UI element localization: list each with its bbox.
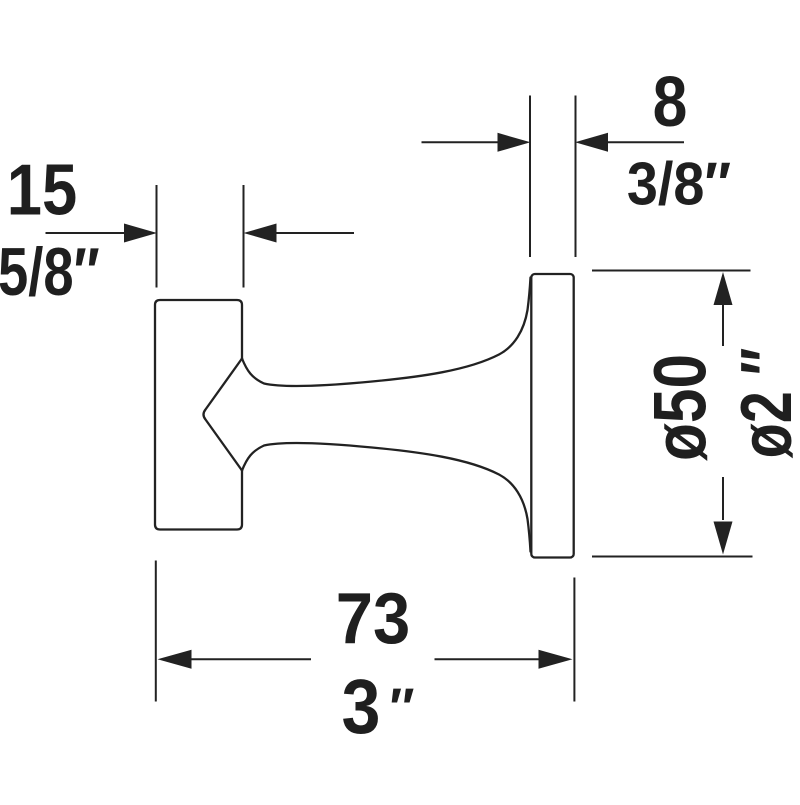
dim ø50: top extension line [592,270,751,272]
dim 73: left extension line [155,561,157,702]
dim ø50: bottom arrow line [722,477,724,520]
dim 8: right extension line [575,96,577,258]
T-bar back cone edge (chevron) [204,359,243,471]
stem upper edge with flare [242,278,531,386]
dim 73: right arrowhead [539,650,573,669]
svg-text:ø50: ø50 [639,354,721,461]
svg-text:″: ″ [389,677,414,739]
dim ø50: top arrowhead [714,272,733,305]
hook T-bar outline [155,300,242,530]
dim 8: left extension line [529,96,531,258]
dim 73: left arrowhead [158,650,192,669]
dim ø50: top arrow line [722,305,724,346]
dim ø50: bottom arrowhead [714,522,733,555]
svg-text:3/8″: 3/8″ [627,152,731,218]
dim 8: right arrowhead [575,133,608,152]
dim 8: left arrowhead [498,133,531,152]
dim 8: left arrow line [422,141,501,143]
dim 15: left arrowhead [124,224,157,243]
svg-text:73: 73 [336,578,410,659]
stem lower edge with flare [242,443,531,551]
svg-text:8: 8 [653,62,688,142]
dim 15: left extension line [156,185,158,288]
dim 8: right arrow line [605,141,684,143]
dim 73: right extension line [573,578,575,702]
wall plate outline [531,274,573,558]
svg-text:5/8″: 5/8″ [0,234,100,310]
dim 15: right arrow line [275,232,354,234]
svg-text:15: 15 [7,151,77,231]
svg-text:3: 3 [342,663,381,750]
dim 15: right arrowhead [244,224,277,243]
dim ø50: bottom extension line [592,556,753,558]
svg-text:ø2 ″: ø2 ″ [726,348,800,459]
dim 15: left arrow line [46,232,127,234]
dim 73: right line segment [435,658,541,660]
dim 73: left line segment [190,658,311,660]
dim 15: right extension line [243,185,245,288]
